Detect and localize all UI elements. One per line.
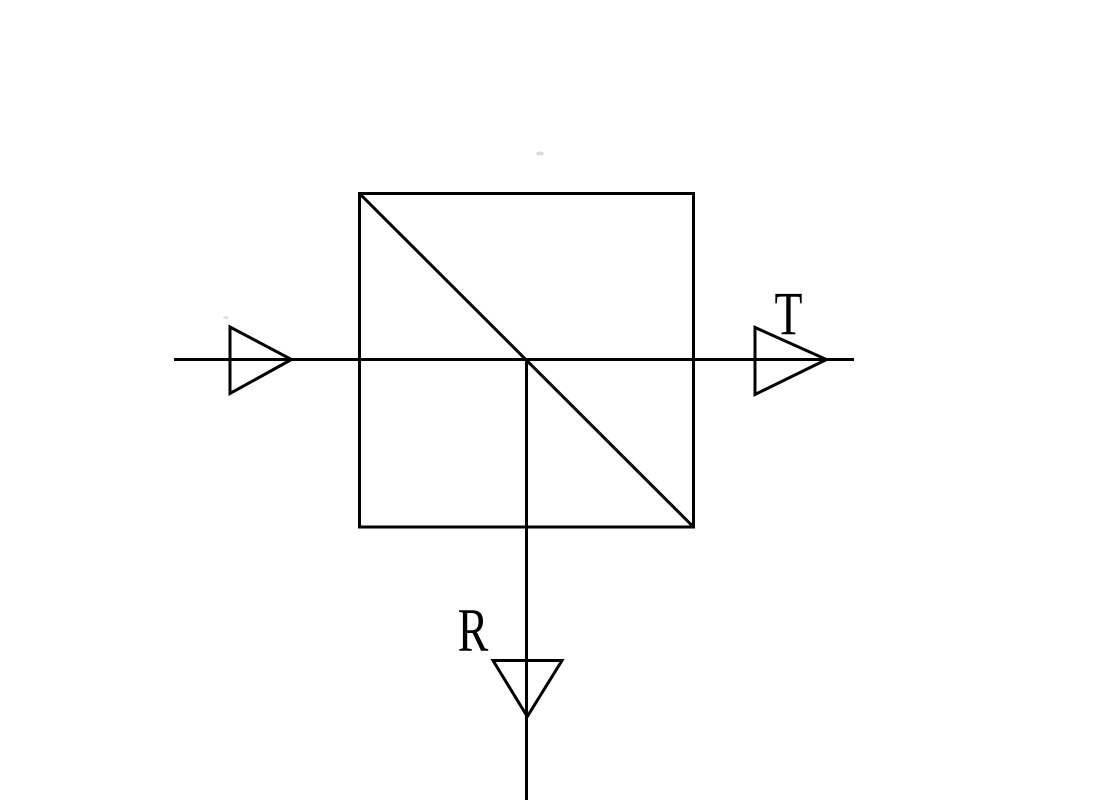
svg-text:T: T [775,280,803,348]
transmitted beam arrowhead (open triangle pointing right) [755,328,827,395]
vertical reflected beam line [525,360,528,800]
input beam arrowhead (open triangle pointing right) [230,327,292,394]
label T (transmitted beam) [775,280,803,348]
horizontal input/transmitted beam line [174,358,854,361]
beam splitter cube body [360,194,694,528]
faint scan artifact dot 2 [223,316,229,319]
reflected beam arrowhead (open triangle pointing down) [493,661,562,717]
faint scan artifact dot [536,152,544,156]
svg-text:R: R [458,596,489,664]
beam splitter diagonal mirror surface [360,194,694,528]
label R (reflected beam) [458,596,489,664]
